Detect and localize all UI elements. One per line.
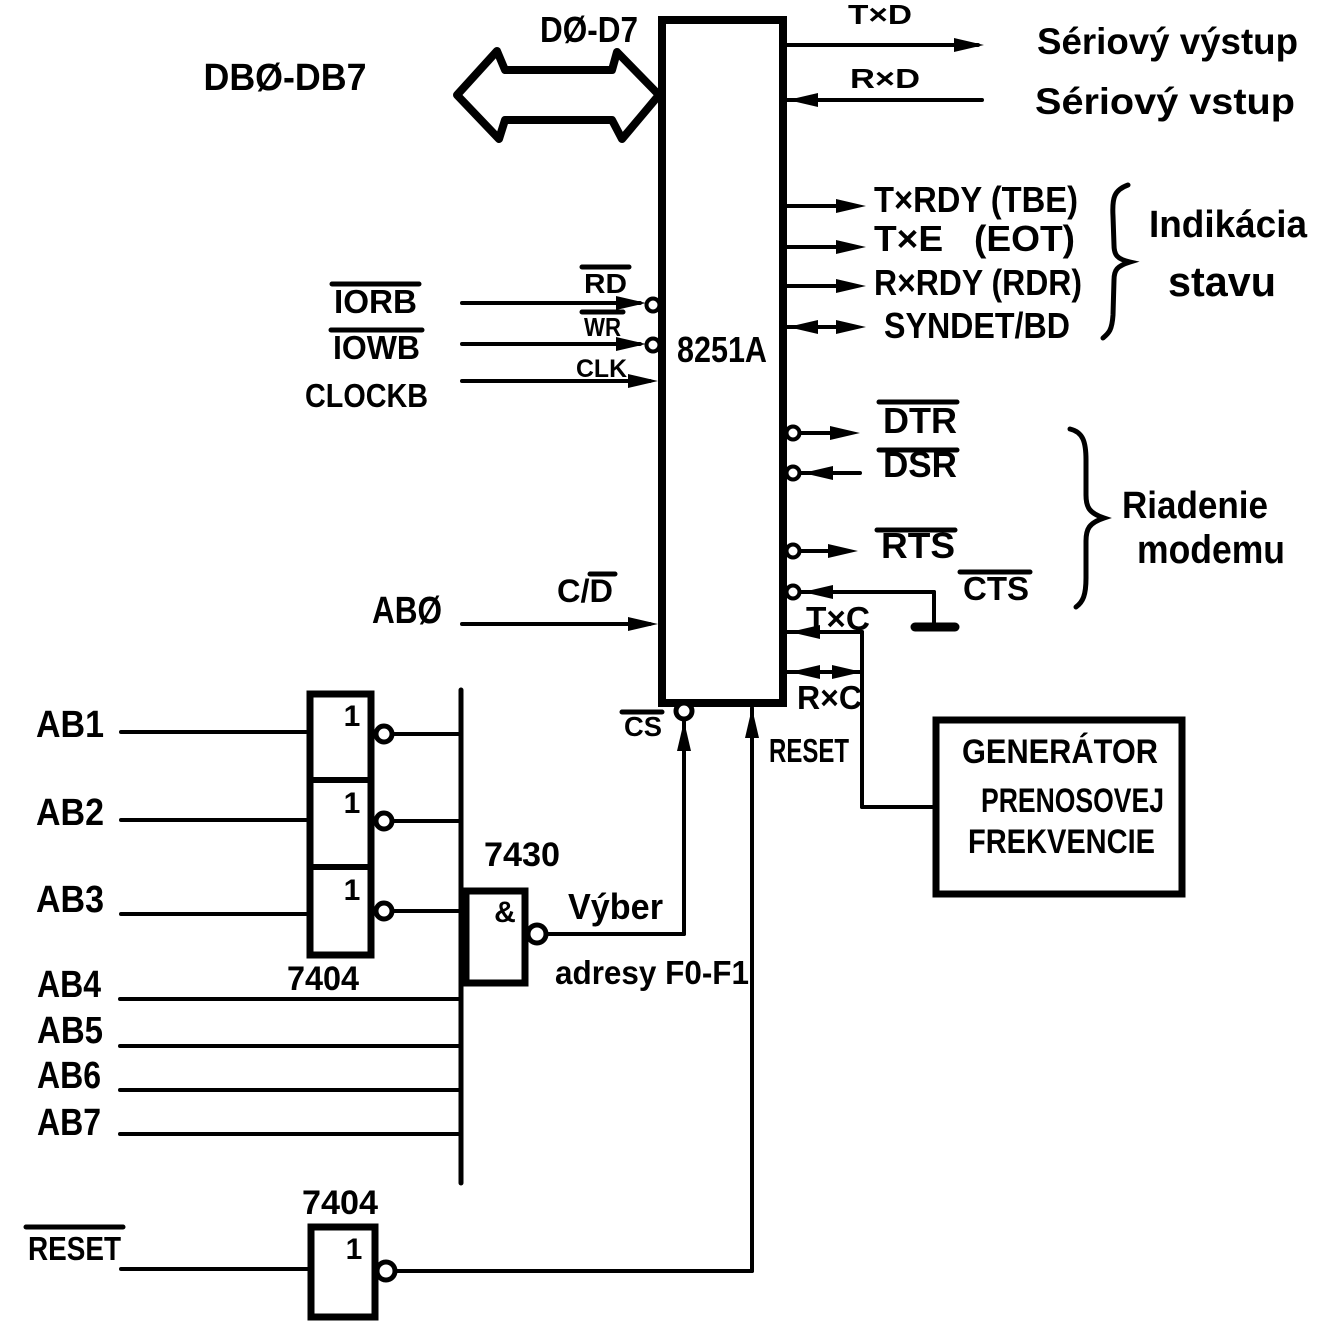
inverter output bubble A1	[376, 726, 392, 742]
pin CTS input wire	[787, 585, 935, 624]
svg-text:CLK: CLK	[576, 355, 627, 383]
pin label RxD	[850, 63, 920, 94]
svg-text:T×C: T×C	[806, 600, 870, 637]
label Seriovy vstup	[1035, 81, 1295, 122]
wire IORB to RD	[462, 296, 660, 312]
net label AB0	[372, 590, 442, 632]
pin label TxC	[806, 600, 870, 637]
svg-text:modemu: modemu	[1137, 528, 1285, 572]
net label AB6	[37, 1055, 101, 1097]
svg-text:1: 1	[344, 787, 361, 820]
label 7430	[484, 836, 560, 874]
svg-text:DBØ-DB7: DBØ-DB7	[204, 57, 367, 99]
pin label WR	[582, 312, 623, 342]
svg-text:RTS: RTS	[881, 525, 955, 566]
svg-text:RESET: RESET	[28, 1230, 121, 1267]
svg-text:AB5: AB5	[37, 1010, 103, 1052]
net label IORB	[332, 283, 419, 320]
svg-text:R×C: R×C	[797, 679, 862, 716]
wire RxRDY output	[786, 279, 866, 293]
svg-text:GENERÁTOR: GENERÁTOR	[962, 733, 1158, 771]
pin DTR output	[787, 426, 861, 440]
label 7404 lower	[302, 1184, 378, 1222]
pin label CTS	[960, 570, 1030, 607]
label Indikacia	[1149, 204, 1308, 246]
svg-text:7404: 7404	[287, 960, 359, 998]
svg-text:T×RDY (TBE): T×RDY (TBE)	[874, 179, 1078, 220]
svg-text:Výber: Výber	[568, 886, 663, 927]
svg-text:AB6: AB6	[37, 1055, 101, 1097]
svg-text:RESET: RESET	[769, 732, 849, 769]
svg-text:PRENOSOVEJ: PRENOSOVEJ	[981, 782, 1164, 820]
svg-text:Sériový vstup: Sériový vstup	[1035, 81, 1295, 122]
svg-text:1: 1	[344, 700, 361, 733]
reset inverter output bubble	[377, 1262, 395, 1280]
data bus bidirectional arrow D0-D7	[457, 51, 659, 139]
svg-text:stavu: stavu	[1168, 258, 1276, 305]
svg-text:AB2: AB2	[36, 792, 104, 834]
svg-text:1: 1	[346, 1233, 363, 1266]
svg-text:AB1: AB1	[36, 704, 104, 746]
inverter output bubble A2	[376, 813, 392, 829]
wire SYNDET/BD bidirectional	[786, 320, 866, 334]
wire RxC input	[786, 665, 862, 679]
wire TxE output	[786, 240, 866, 254]
wire TxD output	[786, 38, 984, 52]
svg-text:DTR: DTR	[883, 400, 957, 441]
pin label DTR	[879, 400, 957, 441]
svg-text:R×RDY (RDR): R×RDY (RDR)	[874, 262, 1082, 303]
wire TxC input	[786, 625, 936, 807]
svg-text:adresy F0-F1: adresy F0-F1	[555, 954, 749, 991]
wire AB3 in	[121, 912, 306, 916]
wire AB6	[120, 1088, 461, 1092]
svg-text:T×E (EOT): T×E (EOT)	[874, 218, 1075, 259]
IC 7430 NAND gate body	[466, 891, 525, 983]
pin label TxD	[848, 0, 912, 30]
net label CLOCKB	[305, 377, 428, 414]
label stavu	[1168, 258, 1276, 305]
svg-text:Indikácia: Indikácia	[1149, 204, 1308, 246]
label Seriovy vystup	[1037, 21, 1298, 62]
net label RESET input	[26, 1227, 123, 1267]
net label AB7	[37, 1102, 101, 1144]
pin label RxC	[797, 679, 862, 716]
IC 7404 triple inverter body	[310, 694, 371, 955]
svg-text:CLOCKB: CLOCKB	[305, 377, 428, 414]
label 7404 upper	[287, 960, 359, 998]
pin label TxE (EOT)	[874, 218, 1075, 259]
svg-text:RD: RD	[584, 268, 627, 299]
wire AB7	[120, 1132, 461, 1136]
IC 7404 reset inverter body	[311, 1227, 375, 1317]
wire AB3 inverted out	[392, 909, 461, 913]
svg-text:FREKVENCIE: FREKVENCIE	[968, 823, 1155, 861]
wire AB4	[120, 997, 461, 1001]
label adresy F0-F1	[555, 954, 749, 991]
net label AB2	[36, 792, 104, 834]
IC U1 8251A USART body	[662, 20, 783, 703]
pin label RESET	[769, 732, 849, 769]
net label AB5	[37, 1010, 103, 1052]
net label D0-D7	[540, 9, 638, 50]
net label AB1	[36, 704, 104, 746]
svg-text:C/D: C/D	[557, 573, 613, 609]
ground symbol for CTS	[915, 623, 955, 632]
label Vyber	[568, 886, 663, 927]
svg-text:7404: 7404	[302, 1184, 378, 1222]
net label AB3	[36, 879, 104, 921]
wire AB5	[120, 1044, 461, 1048]
wire AB2 in	[121, 818, 306, 822]
brace indication group	[1103, 185, 1130, 338]
svg-text:R×D: R×D	[850, 63, 920, 94]
svg-text:IOWB: IOWB	[333, 329, 420, 366]
wire AB2 inverted out	[392, 819, 461, 823]
svg-text:DSR: DSR	[883, 444, 957, 485]
svg-text:1: 1	[344, 874, 361, 907]
wire AB0 to C/D	[462, 617, 658, 631]
svg-text:CS: CS	[624, 711, 662, 742]
brace modem group	[1070, 429, 1104, 607]
pin label CLK	[576, 355, 627, 383]
svg-text:Sériový výstup: Sériový výstup	[1037, 21, 1298, 62]
svg-text:7430: 7430	[484, 836, 560, 874]
pin RTS output	[787, 544, 859, 558]
wire RESET in	[121, 1267, 308, 1271]
inverter output bubble A3	[376, 903, 392, 919]
net label DB0-DB7	[204, 57, 367, 99]
pin label RTS	[877, 525, 955, 566]
svg-text:AB7: AB7	[37, 1102, 101, 1144]
pin label RxRDY (RDR)	[874, 262, 1082, 303]
wire AB1 in	[121, 730, 306, 734]
svg-text:SYNDET/BD: SYNDET/BD	[884, 305, 1070, 346]
pin label C/D	[557, 573, 615, 609]
svg-text:Riadenie: Riadenie	[1122, 485, 1268, 527]
pin label DSR	[879, 444, 957, 485]
svg-text:WR: WR	[584, 312, 621, 342]
wire TxRDY output	[786, 199, 866, 213]
bus junction vertical wire	[459, 690, 464, 1183]
svg-text:&: &	[494, 896, 516, 929]
pin label CS	[622, 711, 662, 742]
net label IOWB	[331, 329, 422, 366]
wire RxD input	[786, 93, 982, 107]
svg-text:8251A: 8251A	[677, 329, 767, 370]
pin label SYNDET/BD	[884, 305, 1070, 346]
wire CLOCKB to CLK	[462, 374, 658, 388]
block generator of transfer frequency	[936, 720, 1182, 894]
svg-text:CTS: CTS	[963, 570, 1029, 607]
wire RESET to chip	[395, 708, 759, 1271]
gate 7430 output bubble	[528, 925, 546, 943]
pin label RD	[582, 267, 629, 299]
svg-text:ABØ: ABØ	[372, 590, 442, 632]
pin label TxRDY (TBE)	[874, 179, 1078, 220]
wire IOWB to WR	[462, 337, 660, 352]
label modemu	[1137, 528, 1285, 572]
label Riadenie	[1122, 485, 1268, 527]
wire AB1 inverted out	[392, 732, 461, 736]
pin CS chip-select wire	[546, 703, 692, 934]
net label AB4	[37, 964, 101, 1006]
pin DSR input	[787, 466, 861, 480]
svg-text:IORB: IORB	[334, 283, 417, 320]
svg-text:DØ-D7: DØ-D7	[540, 9, 638, 50]
svg-text:AB3: AB3	[36, 879, 104, 921]
svg-text:T×D: T×D	[848, 0, 912, 30]
svg-text:AB4: AB4	[37, 964, 101, 1006]
